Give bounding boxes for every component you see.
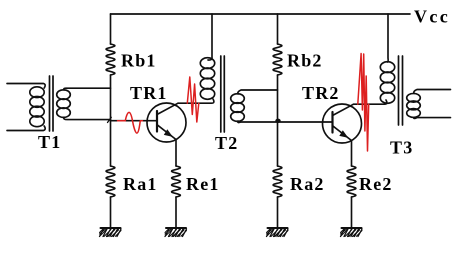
transformer T3 secondary top lead [414,90,451,94]
svg-text:Rb1: Rb1 [121,51,157,71]
transformer T2 core [221,56,225,132]
ground under Ra2 [267,228,289,237]
wire Rb1 bottom to base node [110,75,112,166]
transformer T1 secondary bottom lead [64,117,111,119]
wire rail drop to T3 primary [387,14,390,62]
resistor Ra2 [273,166,282,197]
signal at TR1 collector (red) [187,77,199,122]
ground under Re1 [165,228,187,237]
transformer T2 secondary top lead [238,90,278,94]
svg-text:T2: T2 [215,133,238,153]
svg-text:Re2: Re2 [359,174,393,194]
transformer T1 secondary coil [57,90,71,100]
wire left vertical drop from rail to Rb1 [110,14,112,44]
wire rail drop to Rb2 [277,14,279,44]
svg-text:Ra1: Ra1 [123,174,158,194]
ground under Re2 [341,228,363,237]
svg-text:Ra2: Ra2 [290,174,325,194]
resistor Rb2 [273,44,282,75]
wire TR1 collector to T2 primary [178,99,214,103]
transformer T3 core [399,56,403,125]
ground under Ra1 [100,228,122,237]
transformer T3 secondary bottom lead [414,117,451,118]
transformer T2 secondary bottom lead / TR2 base wire [238,121,333,123]
transistor TR1 [147,103,186,166]
resistor Re2 [347,166,356,197]
junction base node 2 [275,119,280,123]
transformer T1 primary coil [30,87,44,98]
resistor Rb1 [106,44,115,75]
svg-text:T3: T3 [390,138,413,158]
transformer T2 secondary coil [231,94,245,104]
transformer T3 primary coil [380,62,394,73]
wire Ra2 to ground [277,197,279,228]
svg-text:TR1: TR1 [130,83,168,103]
wire TR1 base [111,120,158,122]
transformer T3 secondary coil [407,93,421,102]
transformer T1 core [50,76,54,131]
junction base node 1 [108,117,112,122]
wire Re1 to ground [175,197,177,228]
transformer T1 primary top lead [7,84,45,89]
resistor Ra1 [106,166,115,197]
resistor Re1 [172,166,181,197]
svg-text:TR2: TR2 [302,83,340,103]
wire Ra1 to ground [110,197,112,228]
wire Re2 to ground [351,197,353,228]
svg-text:Vcc: Vcc [414,7,450,27]
wire rail drop to T2 primary [208,14,212,60]
wire Vcc top rail [111,13,411,15]
svg-text:T1: T1 [38,132,61,152]
transformer T2 primary coil [200,58,214,69]
svg-text:Rb2: Rb2 [287,51,323,71]
signal input sine (red) [118,112,143,133]
transformer T1 primary bottom lead [7,126,45,131]
wire TR2 collector to T3 primary [354,100,387,104]
signal at TR2 collector (red) [358,54,369,152]
svg-text:Re1: Re1 [186,174,220,194]
wire Rb2 bottom to base node 2 [277,75,279,166]
transistor TR2 [323,104,362,166]
transformer T1 secondary top lead [64,88,111,90]
